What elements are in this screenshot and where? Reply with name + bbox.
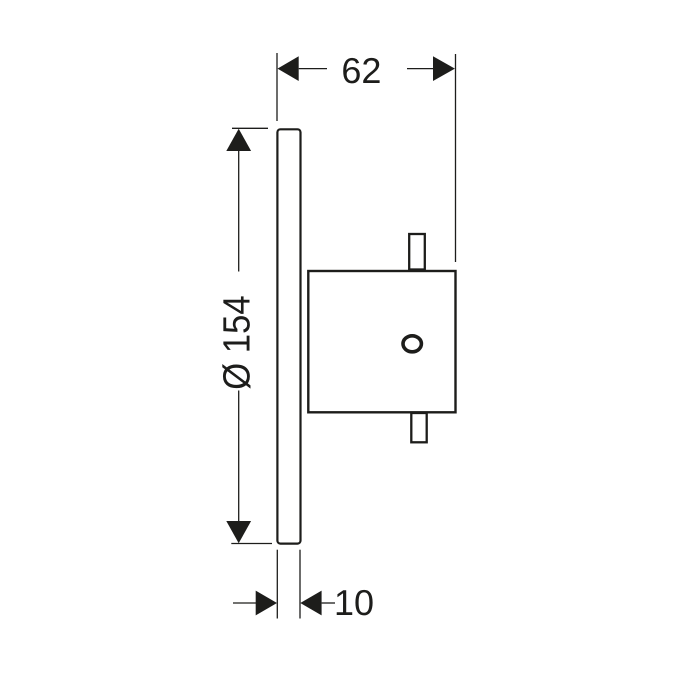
dimension 10: left tail line <box>233 602 256 604</box>
dimension 62: left tail line <box>299 68 327 70</box>
dimension Ø154: label <box>222 296 250 388</box>
dimension Ø154: lower line segment <box>238 391 240 522</box>
dimension Ø154: upper line segment <box>238 151 240 272</box>
dimension Ø154: up arrow <box>226 129 251 151</box>
valve body (square) <box>308 271 455 412</box>
handle screw circle <box>403 336 421 352</box>
dimension 62: left arrow <box>278 56 299 81</box>
dimension 62: right tail line <box>407 68 433 70</box>
dimension 10: right extension line <box>299 550 301 619</box>
dimension 10: left arrow <box>256 591 277 616</box>
dimension 10: right arrow <box>300 591 321 616</box>
dimension 62: label <box>343 58 379 83</box>
plate (side view, rounded slab) <box>277 129 300 543</box>
dimension Ø154: down arrow <box>226 521 251 543</box>
dimension 10: right tail line <box>322 602 335 604</box>
dimension Ø154: bottom tick <box>231 543 272 545</box>
dimension 62: left extension line <box>276 53 278 121</box>
dimension 62: right arrow <box>433 56 455 81</box>
dimension 10: left extension line <box>276 550 278 619</box>
dimension 10: label <box>337 590 373 615</box>
dimension Ø154: top tick <box>232 127 268 129</box>
dimension 62: right extension line <box>455 54 457 262</box>
bottom stop-ring tab <box>411 413 426 442</box>
top stop-ring tab <box>409 234 425 270</box>
